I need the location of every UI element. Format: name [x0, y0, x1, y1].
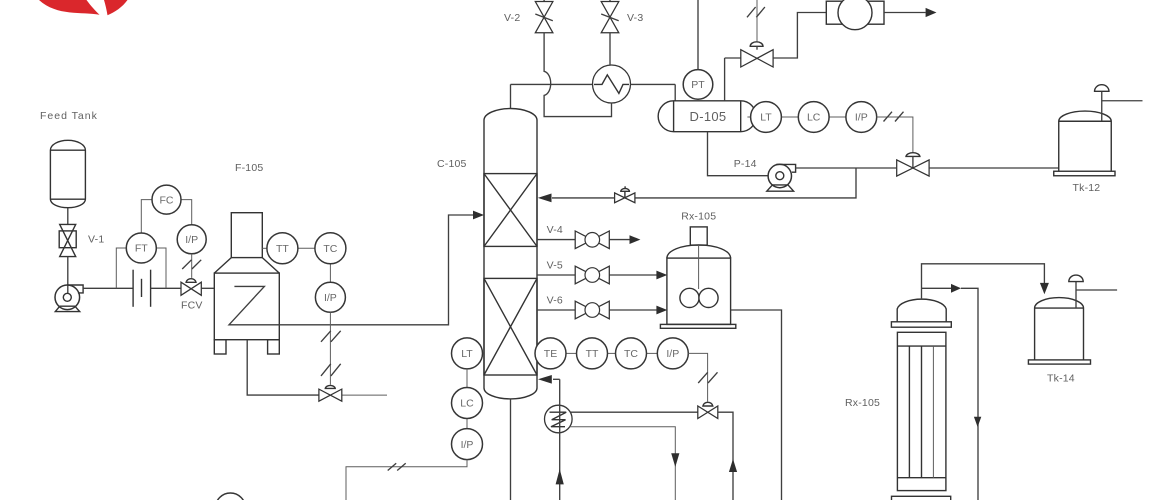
svg-text:TE: TE [544, 348, 557, 360]
svg-text:LT: LT [461, 348, 473, 360]
svg-text:TC: TC [323, 243, 337, 255]
svg-text:I/P: I/P [324, 292, 337, 304]
svg-text:FCV: FCV [181, 300, 203, 312]
svg-text:PT: PT [691, 79, 705, 91]
svg-text:Feed Tank: Feed Tank [40, 110, 98, 122]
svg-text:Tk-14: Tk-14 [1047, 373, 1075, 385]
svg-text:C-105: C-105 [437, 158, 467, 170]
svg-text:V-6: V-6 [547, 295, 563, 307]
svg-text:I/P: I/P [855, 112, 868, 124]
svg-text:I/P: I/P [666, 348, 679, 360]
svg-text:V-5: V-5 [547, 260, 563, 272]
svg-text:P-14: P-14 [734, 158, 757, 170]
svg-text:Tk-12: Tk-12 [1073, 182, 1101, 194]
svg-text:I/P: I/P [185, 234, 198, 246]
svg-text:LT: LT [760, 112, 772, 124]
svg-text:TT: TT [276, 243, 289, 255]
svg-text:Rx-105: Rx-105 [845, 397, 880, 409]
svg-text:F-105: F-105 [235, 162, 263, 174]
svg-text:Rx-105: Rx-105 [681, 211, 716, 223]
svg-text:LC: LC [460, 398, 474, 410]
svg-text:V-3: V-3 [627, 12, 643, 24]
svg-text:I/P: I/P [461, 439, 474, 451]
svg-text:V-1: V-1 [88, 234, 104, 246]
svg-text:LC: LC [807, 112, 821, 124]
svg-text:FC: FC [160, 194, 174, 206]
svg-text:TC: TC [624, 348, 638, 360]
svg-text:D-105: D-105 [690, 109, 727, 124]
svg-text:TT: TT [586, 348, 599, 360]
svg-text:FT: FT [135, 243, 148, 255]
svg-text:V-4: V-4 [547, 224, 563, 236]
svg-text:V-2: V-2 [504, 12, 520, 24]
